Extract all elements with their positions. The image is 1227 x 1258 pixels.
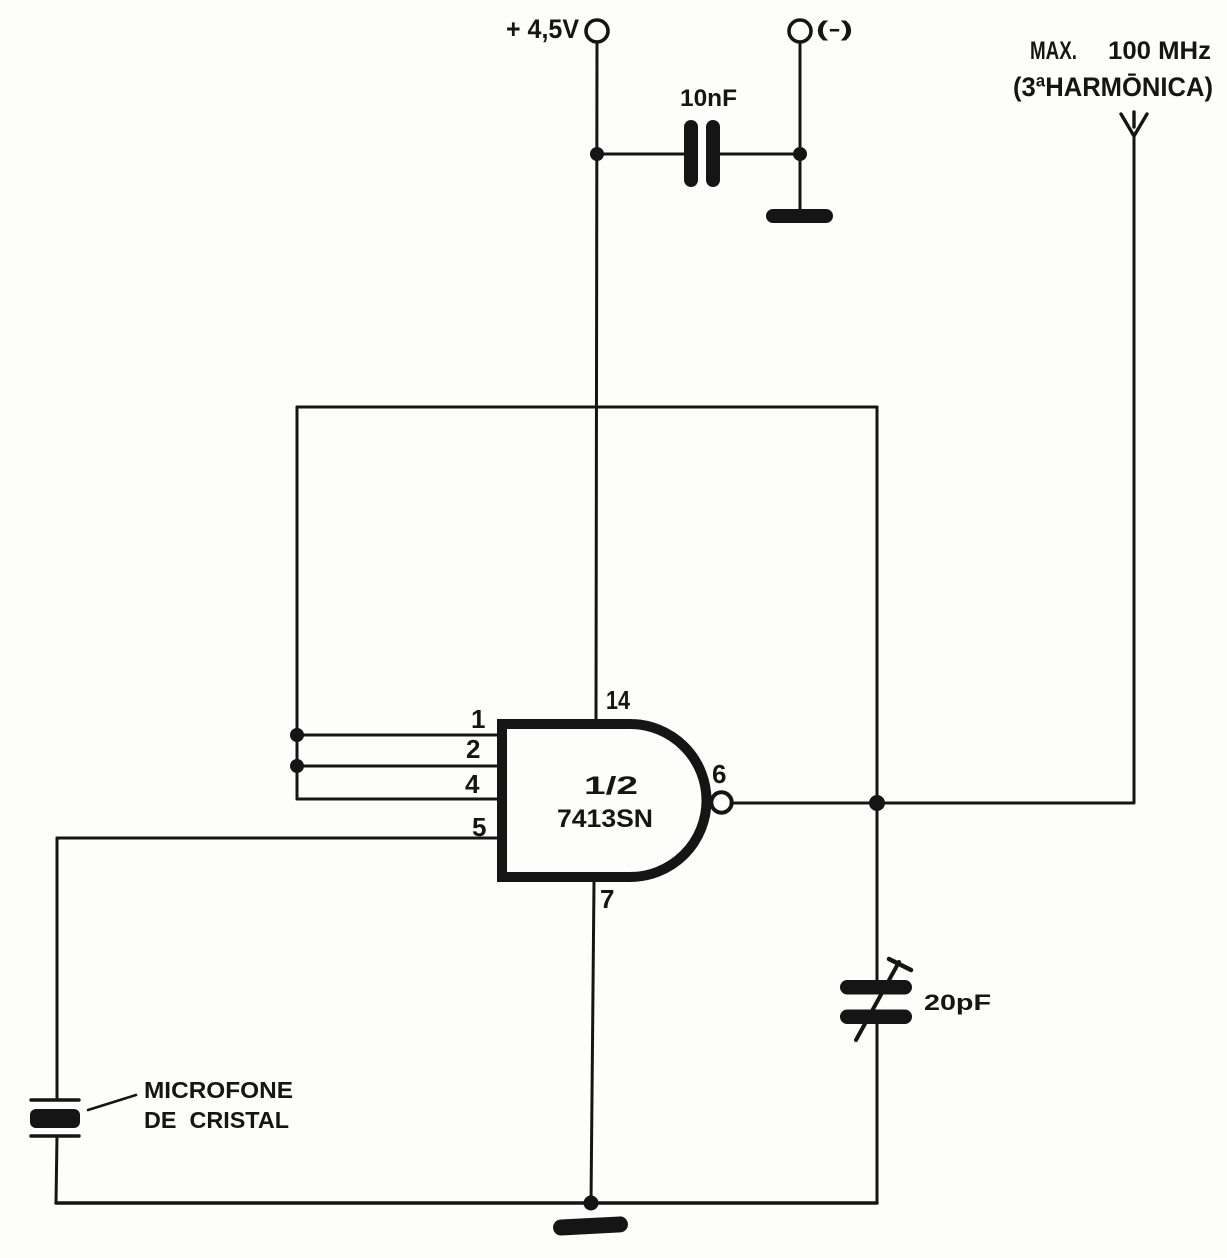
svg-text:100 MHz: 100 MHz [1108,37,1211,65]
wire bottom rail [56,1201,877,1204]
wire feedback left vertical [296,407,299,799]
svg-text:20pF: 20pF [924,990,991,1015]
trimmer capacitor CV 20pF top plate [840,980,912,995]
trimmer capacitor CV 20pF bottom plate [840,1010,912,1025]
node output / feedback / trimmer junction [869,795,885,811]
wire antenna vertical [1133,136,1136,802]
wire feedback top [297,406,877,409]
node pin 2 junction [290,759,304,773]
ground (top) [766,209,833,223]
svg-text:+ 4,5V: + 4,5V [506,14,579,44]
NAND gate U1 1/2 7413SN body [502,724,707,877]
wire C1 right lead [720,153,800,156]
svg-text:(3ªHARMŌNICA): (3ªHARMŌNICA) [1013,72,1213,102]
microphone top plate [31,1098,79,1101]
node bottom rail / pin 7 junction [584,1196,599,1211]
svg-text:MICROFONE: MICROFONE [144,1077,293,1103]
wire pin 2 [297,765,499,768]
wire feedback right vertical [876,407,879,980]
wire (-) to ground [799,154,802,212]
svg-text:2: 2 [466,734,480,764]
trimmer arrow T-head [889,959,911,970]
wire mic left vertical (from pin 5) [56,838,59,1100]
wire pin 1 [297,734,499,737]
svg-text:MAX.: MAX. [1030,37,1077,65]
wire gate output [731,802,1134,805]
node pin 1 junction [290,728,304,742]
svg-text:7: 7 [600,884,614,914]
svg-text:(-): (-) [816,18,853,41]
wire C1 left lead [597,153,684,156]
terminal +4,5V [586,20,608,42]
node +V / C1 junction [590,147,604,161]
antenna arrow stub [1132,112,1135,127]
microphone crystal element [30,1109,80,1128]
gate output bubble pin 6 [711,792,731,812]
svg-text:10nF: 10nF [680,85,737,112]
wire pin 7 down [591,882,594,1203]
svg-text:4: 4 [465,769,480,799]
wire trimmer to bottom rail [876,1024,879,1203]
svg-text:6: 6 [712,759,726,789]
svg-text:14: 14 [606,685,630,715]
wire mic to bottom rail [56,1136,57,1203]
svg-text:1/2: 1/2 [584,772,638,800]
wire (-) vertical [799,42,802,154]
wire +V vertical to gate pin 14 [596,42,597,722]
capacitor C1 10nF plates [684,120,720,187]
label leader line [88,1095,136,1110]
node (-) / C1 junction [793,147,807,161]
svg-text:5: 5 [472,812,486,842]
svg-text:1: 1 [471,704,485,734]
wire pin 5 [57,837,499,840]
terminal (-) [789,20,811,42]
svg-text:7413SN: 7413SN [557,805,653,833]
wire pin 4 [297,798,499,801]
svg-text:DE CRISTAL: DE CRISTAL [144,1107,289,1133]
ground (bottom) [553,1216,629,1236]
microphone bottom plate [31,1134,79,1137]
trimmer adjustment arrow [856,962,899,1040]
antenna arrowhead [1121,114,1147,136]
